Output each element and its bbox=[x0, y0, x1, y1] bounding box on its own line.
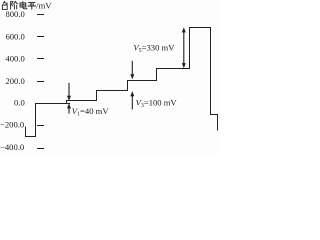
svg-text:0.0: 0.0 bbox=[14, 98, 25, 108]
电 bbox=[20, 1, 27, 9]
axis title: 台阶电平/mV (hand-drawn CJK strokes) bbox=[2, 1, 36, 10]
V1 annotation arrows bbox=[67, 83, 70, 114]
svg-text:600.0: 600.0 bbox=[5, 31, 24, 41]
svg-text:200.0: 200.0 bbox=[5, 76, 24, 86]
V3 annotation arrows bbox=[131, 61, 134, 110]
台 bbox=[3, 1, 7, 4]
svg-text:−200.0: −200.0 bbox=[0, 120, 24, 130]
y-axis tick marks bbox=[37, 15, 44, 149]
svg-text:/mV: /mV bbox=[36, 0, 52, 10]
svg-text:400.0: 400.0 bbox=[5, 54, 24, 64]
staircase waveform bbox=[26, 28, 218, 137]
阶 bbox=[11, 1, 13, 9]
svg-text:−400.0: −400.0 bbox=[0, 142, 24, 152]
svg-text:800.0: 800.0 bbox=[5, 9, 24, 19]
平 bbox=[28, 2, 36, 9]
V5 annotation double arrow bbox=[182, 28, 185, 68]
